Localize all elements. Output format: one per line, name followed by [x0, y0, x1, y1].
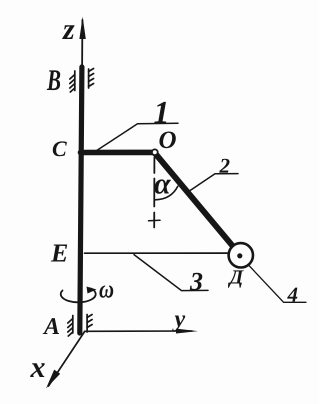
svg-text:Д: Д — [227, 267, 244, 289]
svg-text:C: C — [52, 136, 67, 161]
svg-text:y: y — [171, 307, 185, 333]
svg-text:ω: ω — [99, 274, 114, 303]
svg-text:B: B — [46, 64, 61, 97]
svg-text:x: x — [29, 351, 45, 384]
svg-text:z: z — [62, 13, 75, 46]
svg-text:3: 3 — [189, 267, 203, 296]
svg-text:O: O — [159, 127, 177, 154]
svg-text:4: 4 — [286, 283, 298, 307]
svg-text:1: 1 — [154, 94, 170, 130]
svg-text:α: α — [154, 167, 171, 200]
svg-text:E: E — [50, 238, 68, 267]
svg-text:2: 2 — [219, 154, 231, 178]
svg-text:A: A — [42, 314, 60, 340]
